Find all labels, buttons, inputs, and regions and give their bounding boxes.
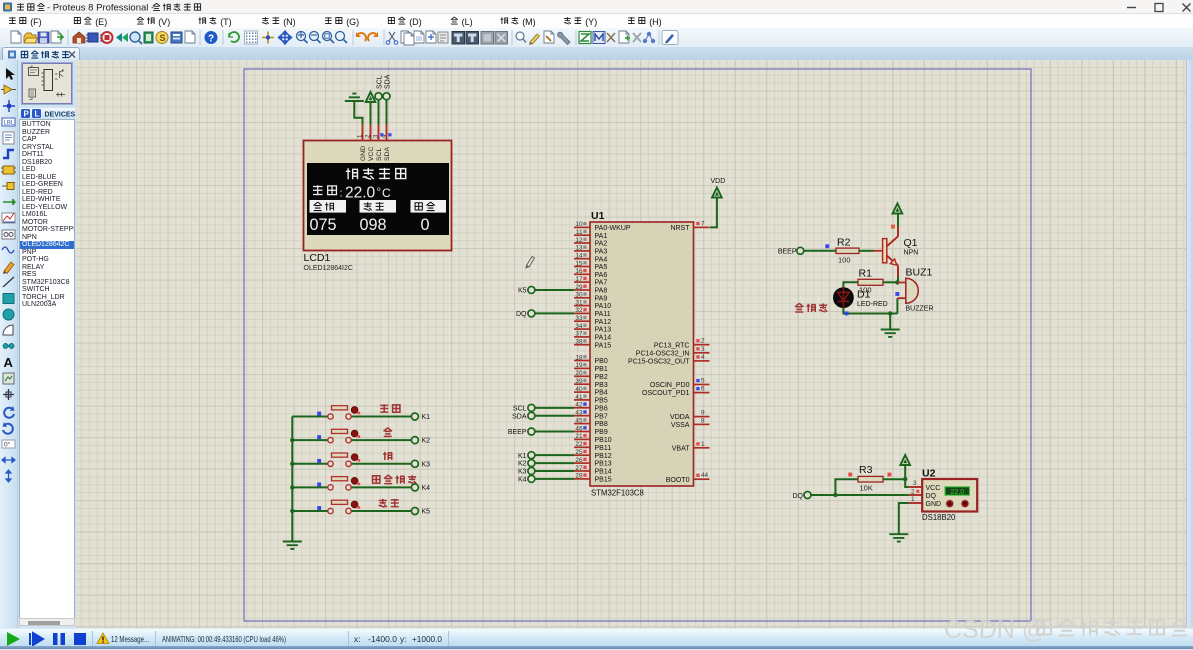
U1 pin 5 OSCIN_PD0 — [650, 378, 710, 390]
U1 pin 34 PA13 — [574, 323, 611, 334]
svg-text:SCL: SCL — [376, 75, 383, 89]
push button K1 (设置) — [292, 406, 411, 419]
svg-text:PA5: PA5 — [595, 264, 608, 271]
wire rail up to buzzer minus pin — [896, 298, 898, 313]
svg-text:OLED12864I2C: OLED12864I2C — [304, 265, 353, 272]
U1 pin 42 PB6 — [574, 402, 608, 413]
U1 pin 19 PB1 — [574, 362, 608, 373]
U1 pin 40 PB4 — [574, 386, 608, 397]
U1 pin 16 PA6 — [574, 268, 607, 279]
svg-text:25: 25 — [575, 449, 583, 456]
terminal DQ (to U1) — [516, 310, 574, 318]
svg-text:3: 3 — [701, 346, 705, 353]
svg-text:9: 9 — [701, 410, 705, 417]
state square (BEEP wire) — [825, 244, 829, 248]
U1 pin 6 OSCOUT_PD1 — [642, 386, 709, 398]
terminal K1 (to U1) — [518, 452, 574, 460]
terminal K5 (to U1) — [518, 286, 574, 294]
LCD screen line 温度: 22.0°C — [313, 185, 391, 202]
junction (emitter node) — [895, 280, 899, 284]
svg-text:OSCIN_PD0: OSCIN_PD0 — [650, 382, 690, 389]
pin4 state square — [388, 133, 391, 136]
svg-text:C: C — [382, 186, 391, 200]
svg-text:44: 44 — [701, 472, 709, 479]
svg-text:DEVICES: DEVICES — [45, 112, 76, 119]
svg-text:K4: K4 — [422, 485, 431, 492]
U2 pin 2 DQ stub — [909, 494, 922, 496]
U1 pin 45 PB8 — [574, 417, 608, 428]
svg-text:38: 38 — [575, 339, 583, 346]
U1 pin 8 VSSA — [671, 417, 710, 429]
svg-text:12: 12 — [575, 237, 583, 244]
svg-text:PB14: PB14 — [595, 469, 612, 476]
svg-text:0: 0 — [421, 216, 430, 234]
push button K5 (切换) — [292, 500, 411, 514]
wire R2 to Q1 base — [859, 250, 874, 252]
resistor R2 — [836, 248, 859, 253]
LCD1 pin stubs 1-4 — [362, 125, 364, 141]
U1 pin 28 PB15 — [574, 473, 612, 484]
svg-text:LBL: LBL — [4, 121, 15, 127]
junction (bus row 5) — [290, 509, 294, 513]
svg-text:PA12: PA12 — [595, 319, 612, 326]
svg-text:PA14: PA14 — [595, 334, 612, 341]
svg-text:42: 42 — [575, 402, 583, 409]
svg-text:PA13: PA13 — [595, 327, 612, 334]
svg-text:SDA: SDA — [512, 413, 527, 420]
svg-text:29: 29 — [575, 284, 583, 291]
LCD screen title 智能手环 — [346, 168, 406, 179]
svg-text:26: 26 — [575, 457, 583, 464]
svg-text:12 Message...: 12 Message... — [111, 634, 149, 644]
svg-text:VBAT: VBAT — [672, 445, 690, 452]
svg-text:PA3: PA3 — [595, 248, 608, 255]
svg-text:8: 8 — [701, 417, 705, 424]
svg-text:31: 31 — [575, 299, 583, 306]
svg-text:(F): (F) — [30, 17, 42, 27]
svg-text:PB5: PB5 — [595, 398, 608, 405]
junction (R3/VDD) — [903, 477, 907, 481]
svg-text:BEEP: BEEP — [778, 248, 797, 255]
state square (collector) — [891, 225, 895, 229]
label 减 — [383, 452, 392, 460]
op U1 MCU body — [590, 222, 694, 486]
svg-text:PA9: PA9 — [595, 295, 608, 302]
svg-text:VDD: VDD — [711, 178, 726, 185]
wire R1 left to D1 — [843, 282, 858, 287]
U1 pin 14 PA4 — [574, 252, 607, 263]
svg-text:R1: R1 — [859, 268, 873, 280]
svg-text:45: 45 — [575, 417, 583, 424]
terminal K1 — [411, 413, 430, 421]
svg-text:PB4: PB4 — [595, 390, 608, 397]
U1 pin 9 VDDA — [670, 410, 709, 422]
svg-text:(V): (V) — [158, 17, 170, 27]
svg-text:098: 098 — [360, 216, 387, 234]
terminal SDA (to U1) — [512, 412, 574, 420]
terminal K3 — [411, 460, 430, 468]
terminal K2 (to U1) — [518, 460, 574, 468]
svg-text:K3: K3 — [518, 469, 527, 476]
svg-text:SDA: SDA — [384, 147, 391, 161]
wire BEEP to R2 — [804, 250, 836, 252]
svg-text:(M): (M) — [522, 17, 536, 27]
svg-text:PB9: PB9 — [595, 429, 608, 436]
svg-text:7: 7 — [701, 220, 705, 227]
svg-text:2: 2 — [911, 488, 915, 495]
U1 pin 3 PC14-OSC32_IN — [636, 346, 710, 358]
svg-text:U1: U1 — [591, 210, 605, 222]
svg-text:(L): (L) — [462, 17, 473, 27]
U1 pin 39 PB3 — [574, 378, 608, 389]
terminal K2 — [411, 437, 430, 445]
U1 pin 30 PA9 — [574, 292, 607, 303]
label 加 — [384, 428, 392, 437]
U1 pin 4 PC15-OSC32_OUT — [628, 354, 709, 366]
svg-text:PB8: PB8 — [595, 421, 608, 428]
svg-text:22.0: 22.0 — [950, 489, 964, 496]
svg-text:PB15: PB15 — [595, 476, 612, 483]
U1 pin 41 PB5 — [574, 394, 608, 405]
U1 pin 22 PB11 — [574, 441, 611, 452]
power VDD (NRST) — [710, 178, 725, 227]
svg-text:BUZZER: BUZZER — [906, 306, 934, 313]
terminal SCL — [375, 93, 382, 100]
wire gnd to pin1 — [354, 101, 362, 125]
svg-text:K2: K2 — [518, 461, 527, 468]
wire junction up to R3 — [835, 479, 858, 495]
svg-text:OSCOUT_PD1: OSCOUT_PD1 — [642, 390, 690, 397]
svg-text:PA4: PA4 — [595, 256, 608, 263]
U1 pin 12 PA2 — [574, 237, 607, 248]
U1 pin 10 PA0-WKUP — [574, 221, 631, 232]
svg-text:17: 17 — [575, 276, 583, 283]
U1 pin 26 PB13 — [574, 457, 612, 468]
svg-text:PB6: PB6 — [595, 405, 608, 412]
svg-text:PC13_RTC: PC13_RTC — [654, 342, 690, 349]
terminal K3 (to U1) — [518, 467, 574, 475]
svg-text:PB11: PB11 — [595, 445, 612, 452]
svg-text:PB7: PB7 — [595, 413, 608, 420]
svg-text:- Proteus 8 Professional -: - Proteus 8 Professional - — [47, 3, 154, 14]
svg-text:y:: y: — [400, 634, 407, 644]
svg-text:PA7: PA7 — [595, 280, 608, 287]
svg-text:Q1: Q1 — [904, 237, 918, 249]
svg-text:(Y): (Y) — [585, 17, 597, 27]
button state square K5 — [317, 506, 321, 510]
svg-text:S: S — [160, 33, 166, 43]
svg-text:DQ: DQ — [516, 311, 527, 318]
junction (bus row 2) — [290, 438, 294, 442]
svg-text:(H): (H) — [649, 17, 662, 27]
svg-text:1: 1 — [911, 496, 915, 503]
svg-text:PA11: PA11 — [595, 311, 611, 318]
svg-text:LED-RED: LED-RED — [857, 301, 888, 308]
svg-text:PA2: PA2 — [595, 241, 608, 248]
svg-text:10: 10 — [575, 221, 583, 228]
U2 pin 3 VCC stub — [909, 486, 922, 488]
svg-text:0°: 0° — [4, 441, 11, 449]
wire D1 to bottom rail — [843, 308, 897, 314]
U2 down button — [961, 500, 969, 508]
svg-text:PB2: PB2 — [595, 374, 608, 381]
svg-text:(N): (N) — [283, 17, 296, 27]
svg-text:STM32F103C8: STM32F103C8 — [591, 489, 644, 498]
terminal K4 (to U1) — [518, 475, 574, 483]
U1 pin 38 PA15 — [574, 339, 611, 350]
LED D1 (LED-RED) — [833, 287, 854, 308]
svg-text:DQ: DQ — [926, 493, 937, 500]
label 切换 — [379, 499, 399, 507]
button state square K2 — [317, 435, 321, 439]
resistor R3 — [858, 476, 883, 482]
U1 pin 11 PA1 — [574, 229, 607, 240]
svg-text:22.0: 22.0 — [345, 185, 376, 202]
terminal K5 — [411, 508, 430, 516]
LCD1 OLED display module body — [304, 141, 452, 251]
svg-text:D1: D1 — [857, 289, 871, 301]
svg-text:6: 6 — [701, 386, 705, 393]
U1 pin 25 PB12 — [574, 449, 612, 460]
svg-text:PC15-OSC32_OUT: PC15-OSC32_OUT — [628, 359, 690, 366]
ground (buttons) — [283, 542, 302, 549]
button state square K4 — [317, 483, 321, 487]
svg-text:PA1: PA1 — [595, 233, 608, 240]
svg-text:(G): (G) — [346, 17, 359, 27]
svg-text:30: 30 — [575, 292, 583, 299]
cursor pencil — [526, 257, 535, 269]
button state square K1 — [317, 412, 321, 416]
svg-text:1: 1 — [357, 134, 364, 138]
svg-text:R2: R2 — [837, 236, 851, 248]
svg-text:?: ? — [208, 34, 214, 45]
terminal BEEP (to U1) — [508, 428, 574, 436]
terminal BEEP (driver) — [778, 247, 804, 255]
svg-text:DQ: DQ — [793, 493, 804, 500]
svg-text:19: 19 — [575, 362, 583, 369]
svg-text:18: 18 — [575, 354, 583, 361]
ground (U2) — [889, 534, 908, 541]
ground (LCD1 GND pin) — [345, 94, 364, 101]
svg-text:100: 100 — [838, 256, 851, 265]
power VCC arrow (LCD1) — [366, 92, 376, 102]
U1 pin 20 PB2 — [574, 370, 608, 381]
label 步数清零 — [373, 475, 417, 484]
svg-text:PB10: PB10 — [595, 437, 612, 444]
svg-text:(T): (T) — [220, 17, 232, 27]
power VDD (U2 VCC) — [900, 455, 910, 487]
U2 temperature display 22.0 — [945, 487, 970, 495]
power VCC (Q1 collector) — [893, 204, 903, 227]
buzzer BUZ1 — [897, 278, 918, 303]
svg-text:-1400.0: -1400.0 — [368, 634, 397, 644]
svg-text:BEEP: BEEP — [508, 429, 527, 436]
svg-text:075: 075 — [310, 216, 337, 234]
svg-text:VCC: VCC — [926, 485, 941, 492]
svg-text:5: 5 — [701, 378, 705, 385]
label 设置 — [380, 404, 400, 412]
svg-text:DS18B20: DS18B20 — [922, 513, 956, 522]
push button K4 (步数清零) — [292, 477, 411, 490]
svg-text:(E): (E) — [95, 17, 107, 27]
svg-text:K2: K2 — [422, 438, 431, 445]
U1 pin 29 PA8 — [574, 284, 607, 295]
svg-text:L: L — [35, 110, 40, 119]
junction (bus row 3) — [290, 462, 294, 466]
svg-text:PA6: PA6 — [595, 272, 608, 279]
svg-text:NPN: NPN — [904, 250, 919, 257]
svg-text:14: 14 — [575, 252, 583, 259]
resistor R1 — [858, 279, 883, 285]
LCD inverse box 血氧 — [360, 200, 397, 213]
svg-text:K5: K5 — [422, 509, 431, 516]
svg-text:22: 22 — [575, 441, 583, 448]
svg-text:PB12: PB12 — [595, 453, 612, 460]
svg-text:20: 20 — [575, 370, 583, 377]
svg-text:40: 40 — [575, 386, 583, 393]
ground (buzzer) — [881, 330, 900, 337]
U1 pin 15 PA5 — [574, 260, 607, 271]
svg-text:PB3: PB3 — [595, 382, 608, 389]
svg-text:4: 4 — [701, 354, 705, 361]
state square (D1 cathode) — [845, 312, 849, 316]
svg-text:28: 28 — [575, 473, 583, 480]
wire emitter to node — [896, 277, 899, 283]
wire R1 right to node — [883, 281, 897, 283]
label 蜂鸣器 — [795, 303, 827, 312]
svg-text:K5: K5 — [518, 288, 527, 295]
terminal SDA — [383, 93, 390, 100]
svg-text:46: 46 — [575, 425, 583, 432]
svg-text:PA8: PA8 — [595, 288, 608, 295]
U1 pin 37 PA14 — [574, 331, 611, 342]
svg-text:K1: K1 — [422, 414, 431, 421]
U1 pin 44 BOOT0 — [666, 472, 710, 484]
svg-text:VCC: VCC — [368, 147, 375, 161]
svg-text:33: 33 — [575, 315, 583, 322]
svg-text:SCL: SCL — [376, 148, 383, 161]
LCD inverse box 步数 — [411, 200, 447, 213]
junction (ground tap) — [888, 311, 892, 315]
U1 pin 32 PA11 — [574, 307, 611, 318]
U1 pin 13 PA3 — [574, 245, 607, 256]
svg-text:SCL: SCL — [513, 405, 527, 412]
R3 state squares — [848, 473, 852, 477]
svg-text:PB0: PB0 — [595, 358, 608, 365]
svg-text:21: 21 — [575, 433, 583, 440]
U1 pin 1 VBAT — [672, 441, 710, 453]
U1 pin 43 PB7 — [574, 410, 608, 421]
svg-text:3: 3 — [373, 134, 380, 138]
svg-text:K1: K1 — [518, 453, 527, 460]
svg-text:PB1: PB1 — [595, 366, 608, 373]
svg-text:16: 16 — [575, 268, 583, 275]
svg-text:SDA: SDA — [384, 74, 391, 89]
svg-text:K4: K4 — [518, 476, 527, 483]
U1 pin 2 PC13_RTC — [654, 338, 710, 350]
svg-text:32: 32 — [575, 307, 583, 314]
svg-text:15: 15 — [575, 260, 583, 267]
svg-text:27: 27 — [575, 465, 583, 472]
pin3 state square — [380, 133, 383, 136]
LCD inverse box 心率 — [310, 200, 347, 213]
U1 pin 46 PB9 — [574, 425, 608, 436]
svg-text:PA0-WKUP: PA0-WKUP — [595, 225, 631, 232]
U1 pin 21 PB10 — [574, 433, 612, 444]
junction (DQ/R3) — [833, 493, 837, 497]
push button K2 (加) — [292, 429, 411, 443]
transistor Q1 — [883, 227, 898, 277]
svg-text:BOOT0: BOOT0 — [666, 477, 690, 484]
svg-text:+1000.0: +1000.0 — [412, 634, 442, 644]
svg-text:K3: K3 — [422, 461, 431, 468]
svg-text:VDDA: VDDA — [670, 414, 690, 421]
svg-text:3: 3 — [913, 480, 917, 487]
svg-text:41: 41 — [575, 394, 583, 401]
svg-text:PB13: PB13 — [595, 461, 612, 468]
svg-text:x:: x: — [354, 634, 361, 644]
svg-text::: : — [340, 188, 343, 200]
U1 pin 27 PB14 — [574, 465, 612, 476]
svg-text:CSDN @: CSDN @ — [944, 616, 1047, 644]
terminal K4 — [411, 484, 430, 492]
svg-text:2: 2 — [701, 338, 705, 345]
svg-text:PC14-OSC32_IN: PC14-OSC32_IN — [636, 350, 690, 357]
svg-text:NRST: NRST — [670, 225, 690, 232]
svg-text:ANIMATING: 00:00:49.433160 (CP: ANIMATING: 00:00:49.433160 (CPU load 46%… — [162, 634, 286, 644]
terminal DQ (sensor) — [793, 492, 812, 500]
state square (buzzer pin) — [895, 292, 899, 296]
svg-text:PA10: PA10 — [595, 303, 612, 310]
svg-text:A: A — [4, 355, 14, 370]
svg-text:34: 34 — [575, 323, 583, 330]
junction (bus row 4) — [290, 485, 294, 489]
svg-text:GND: GND — [926, 501, 942, 508]
svg-text:BUZ1: BUZ1 — [906, 267, 933, 279]
button state square K3 — [317, 459, 321, 463]
svg-text:10K: 10K — [860, 484, 873, 493]
U2 up button — [946, 500, 954, 508]
wire button common bus — [291, 417, 293, 541]
wire DQ to U2 pin2 — [811, 494, 909, 496]
svg-text:37: 37 — [575, 331, 583, 338]
wire R3 to VDD line — [883, 478, 905, 480]
U1 pin 17 PA7 — [574, 276, 607, 287]
U1 pin 18 PB0 — [574, 354, 608, 365]
svg-text:LCD1: LCD1 — [304, 252, 331, 264]
U1 pin 7 NRST — [670, 220, 709, 232]
svg-text:P: P — [24, 110, 30, 119]
svg-text:11: 11 — [576, 229, 583, 236]
U1 pin 31 PA10 — [574, 299, 611, 310]
terminal SCL (to U1) — [513, 404, 574, 412]
svg-text:U2: U2 — [922, 467, 936, 479]
svg-text:o: o — [377, 186, 381, 193]
U2 pin 1 GND stub — [909, 502, 922, 504]
svg-text:43: 43 — [575, 410, 583, 417]
svg-text:GND: GND — [360, 146, 367, 161]
svg-text:2: 2 — [365, 134, 372, 138]
svg-text:39: 39 — [575, 378, 583, 385]
svg-text:VSSA: VSSA — [671, 422, 690, 429]
svg-text:13: 13 — [575, 245, 583, 252]
push button K3 (减) — [292, 453, 411, 466]
svg-text:1: 1 — [701, 441, 705, 448]
svg-text:R3: R3 — [859, 464, 873, 476]
LCD1 screen — [307, 163, 449, 235]
wire U2 GND down — [899, 503, 909, 534]
sheet border — [244, 69, 1031, 621]
